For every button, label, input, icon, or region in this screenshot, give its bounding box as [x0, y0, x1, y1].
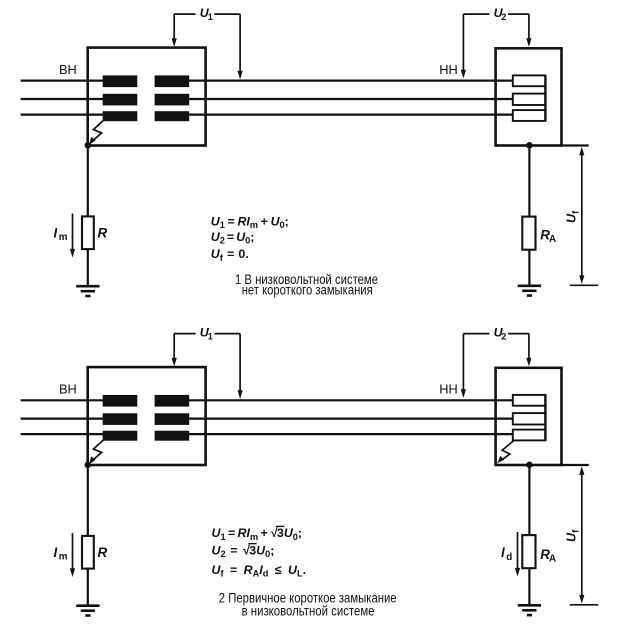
transformer T2 primary winding — [103, 395, 138, 441]
svg-text:R: R — [98, 545, 108, 560]
svg-text:ВН: ВН — [59, 381, 77, 396]
current arrow Im top — [70, 214, 75, 258]
label Uf bottom — [565, 529, 581, 542]
svg-text:f: f — [569, 210, 580, 214]
Uf dimension arrow bottom — [579, 466, 584, 603]
resistor RA bottom — [522, 535, 535, 568]
svg-text:ВН: ВН — [59, 62, 77, 77]
label Uf top — [565, 210, 581, 223]
svg-text:R: R — [98, 225, 108, 240]
caption figure 1 — [235, 271, 378, 297]
label HH bottom — [439, 381, 457, 396]
ground right bottom — [518, 605, 541, 615]
label Id bottom — [501, 545, 512, 563]
Uf dimension arrow top — [579, 147, 584, 284]
wire phase B bottom — [21, 418, 514, 420]
node B top (load star point) — [526, 142, 533, 149]
fault zigzag arrow bottom left — [89, 440, 103, 464]
node B bottom (load star point) — [526, 462, 533, 469]
wire node A to R bottom — [87, 465, 89, 536]
label U1 top — [200, 6, 213, 22]
transformer T1 secondary winding — [155, 75, 190, 121]
resistor R bottom — [82, 536, 94, 569]
svg-text:I: I — [54, 225, 58, 240]
load box bottom — [496, 368, 562, 465]
U2 measurement bracket top — [461, 14, 532, 78]
wire phase A bottom — [21, 399, 514, 401]
label Im top — [54, 225, 68, 243]
svg-text:1: 1 — [208, 332, 213, 342]
equations block 1 — [211, 214, 289, 262]
svg-text:f: f — [569, 529, 580, 533]
wire node B to RA bottom — [528, 465, 530, 535]
svg-text:в низковольтной системе: в низковольтной системе — [242, 603, 375, 619]
svg-text:m: m — [59, 232, 68, 243]
fault zigzag arrow top — [89, 121, 103, 145]
label RA top — [540, 227, 556, 245]
ground right top — [518, 286, 541, 296]
svg-text:U1 = RIm + √3U0;: U1 = RIm + √3U0; — [212, 526, 303, 542]
label U1 bottom — [200, 326, 213, 342]
resistor R top — [82, 216, 94, 249]
label R top — [98, 225, 108, 240]
transformer T1 box — [88, 48, 206, 146]
svg-text:U2 = √3U0;: U2 = √3U0; — [212, 543, 275, 559]
svg-text:d: d — [506, 552, 512, 563]
svg-text:m: m — [59, 552, 68, 563]
label HH top — [439, 62, 457, 77]
wire node B to RA top — [528, 146, 530, 217]
sqrt overbar eq2 line2 — [248, 543, 256, 545]
svg-text:НН: НН — [439, 381, 457, 396]
label BH top — [59, 62, 77, 77]
wire R to ground top — [87, 249, 89, 286]
label R bottom — [98, 545, 108, 560]
wire RA to ground top — [528, 250, 530, 286]
wire node A to R — [87, 146, 89, 217]
svg-text:Uf = RAId ≤ UL.: Uf = RAId ≤ UL. — [212, 563, 307, 579]
wire phase C top — [21, 113, 514, 115]
fault zigzag arrow bottom right — [497, 440, 514, 463]
svg-text:U1 = RIm + U0;: U1 = RIm + U0; — [211, 214, 289, 230]
resistor RA top — [522, 217, 535, 250]
svg-text:Uf = 0.: Uf = 0. — [211, 247, 249, 263]
wire RA to ground bottom — [528, 568, 530, 605]
sqrt overbar eq2 line1 — [276, 525, 284, 527]
label BH bottom — [59, 381, 77, 396]
transformer T1 primary winding — [103, 75, 138, 121]
U2 measurement bracket bottom — [461, 334, 532, 398]
caption figure 2 — [219, 589, 397, 618]
svg-text:1: 1 — [208, 12, 213, 22]
svg-text:нет короткого замыкания: нет короткого замыкания — [242, 281, 373, 297]
svg-text:I: I — [54, 545, 58, 560]
svg-text:A: A — [549, 234, 556, 245]
load winding top — [513, 75, 546, 121]
load winding bottom — [513, 395, 546, 441]
Uf reference tick bottom top — [570, 284, 598, 286]
svg-text:НН: НН — [439, 62, 457, 77]
box bottom extension line bottom — [562, 464, 589, 466]
svg-text:A: A — [549, 554, 556, 565]
label Im bottom — [54, 545, 68, 563]
wire phase A top — [21, 79, 514, 81]
Uf reference tick bottom bottom — [570, 604, 598, 606]
ground left bottom — [76, 606, 99, 616]
svg-text:2: 2 — [501, 332, 506, 342]
label RA bottom — [540, 547, 556, 565]
label U2 top — [494, 6, 507, 22]
U1 measurement bracket bottom — [172, 334, 243, 399]
label U2 bottom — [494, 326, 507, 342]
wire phase B top — [21, 98, 514, 100]
wire phase C bottom — [21, 433, 514, 435]
current arrow Im bottom — [70, 533, 75, 577]
ground left top — [76, 286, 99, 296]
transformer T2 box — [88, 367, 206, 465]
transformer T2 secondary winding — [155, 395, 190, 441]
load box top — [496, 48, 562, 145]
current arrow Id bottom — [515, 532, 520, 577]
svg-text:2: 2 — [501, 12, 506, 22]
node A bottom (neutral tap) — [85, 462, 92, 469]
U1 measurement bracket top — [172, 14, 243, 79]
box bottom extension line top — [562, 144, 589, 146]
svg-text:U2 = U0;: U2 = U0; — [211, 230, 255, 246]
equations block 2 — [212, 526, 307, 579]
wire R to ground bottom — [87, 569, 89, 606]
svg-text:I: I — [501, 545, 505, 560]
node A top (neutral tap) — [85, 142, 92, 149]
